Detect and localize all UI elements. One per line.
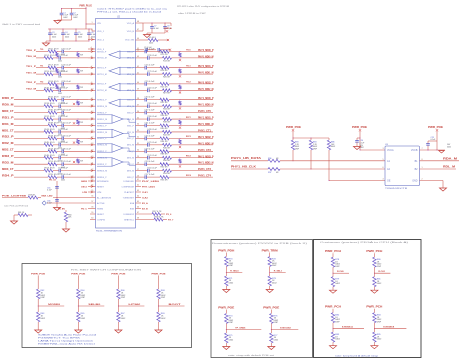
svg-text:GbE 1 in PHY unused tied: GbE 1 in PHY unused tied xyxy=(2,23,40,26)
svg-text:0402: 0402 xyxy=(377,283,382,285)
wire xyxy=(374,267,390,277)
svg-text:PWR_PLUG: PWR_PLUG xyxy=(80,4,93,7)
wire xyxy=(53,196,96,199)
pin number xyxy=(91,66,92,68)
svg-text:C26 0.1uF: C26 0.1uF xyxy=(58,71,69,73)
svg-text:26: 26 xyxy=(137,175,139,177)
pin number xyxy=(383,179,384,181)
wire xyxy=(57,112,62,114)
pin name xyxy=(127,68,134,70)
capacitor C40 xyxy=(61,123,88,131)
net label TP_GND6 xyxy=(235,327,246,329)
svg-text:C46 0.1uF: C46 0.1uF xyxy=(58,142,69,144)
power flag PWR_POE col0 xyxy=(31,274,46,289)
net label PHY1_CT0 xyxy=(198,111,212,113)
pin stub xyxy=(136,125,143,127)
svg-text:R36 0R: R36 0R xyxy=(161,115,169,117)
wire xyxy=(169,99,213,101)
net label RD2_M xyxy=(2,143,14,145)
svg-text:21: 21 xyxy=(91,162,93,164)
wire xyxy=(169,150,213,152)
svg-text:TXC0: TXC0 xyxy=(186,49,191,51)
svg-text:PWR_POE: PWR_POE xyxy=(263,308,280,310)
svg-text:C21 0.1uF: C21 0.1uF xyxy=(145,49,156,51)
pin name EXB xyxy=(130,208,135,210)
svg-text:AL_LARGECM: AL_LARGECM xyxy=(97,196,111,199)
wire xyxy=(169,176,213,178)
pin stub xyxy=(136,112,143,114)
pin name CONFIG xyxy=(97,219,105,221)
wire xyxy=(169,67,213,69)
wire xyxy=(271,324,298,334)
wire xyxy=(269,286,271,290)
pin number xyxy=(91,190,93,192)
svg-text:PHY1_MDI1_M: PHY1_MDI1_M xyxy=(198,124,214,126)
net label PHY0_MDI2_P xyxy=(198,82,214,84)
pin stub VDD_3 xyxy=(88,47,96,50)
svg-text:DNP: DNP xyxy=(121,297,126,299)
pin arrow xyxy=(91,99,93,101)
svg-text:PHY1_HB_CLK: PHY1_HB_CLK xyxy=(231,166,257,168)
pin name INTERFACE xyxy=(97,180,109,183)
resistor R38 xyxy=(163,118,172,124)
svg-text:C32 0.1uF: C32 0.1uF xyxy=(61,97,72,99)
svg-text:RXC3: RXC3 xyxy=(186,156,191,158)
pin number xyxy=(91,124,93,126)
pin name xyxy=(127,106,134,108)
svg-text:R19 49.9: R19 49.9 xyxy=(45,71,56,73)
resistor R41 xyxy=(44,129,56,134)
svg-text:C23 0.1uF: C23 0.1uF xyxy=(147,55,158,57)
power flag PWR_POE col1 xyxy=(71,274,86,289)
ground xyxy=(353,147,360,150)
wire xyxy=(333,323,364,333)
pin numbers right top xyxy=(137,21,139,31)
svg-text:19: 19 xyxy=(91,150,93,152)
wire xyxy=(53,105,59,107)
ground xyxy=(329,346,336,349)
pin name DONE/LED xyxy=(123,181,134,183)
svg-text:DNP: DNP xyxy=(41,297,46,299)
net label TD2_P xyxy=(26,82,37,84)
svg-text:PWR_PCH: PWR_PCH xyxy=(366,307,382,309)
ground xyxy=(54,20,61,24)
svg-text:note: keep bank A default stra: note: keep bank A default strap xyxy=(335,355,378,358)
resistor R85 xyxy=(373,332,382,342)
svg-text:RD3_P: RD3_P xyxy=(2,156,14,158)
svg-text:C24 0.1uF: C24 0.1uF xyxy=(61,65,72,67)
pin number xyxy=(137,162,139,164)
svg-text:0402: 0402 xyxy=(161,318,166,320)
svg-text:TD2_M: TD2_M xyxy=(26,89,36,91)
op-amp buffer ch1 xyxy=(109,67,136,75)
pin name TURBOSET xyxy=(123,197,135,199)
wire xyxy=(14,118,44,120)
svg-text:R.CH1: R.CH1 xyxy=(378,271,385,273)
pin name xyxy=(97,158,107,160)
net label R_SEL1 xyxy=(274,270,283,272)
svg-text:GPAY/SCL: GPAY/SCL xyxy=(124,218,135,221)
wire xyxy=(172,73,214,75)
svg-text:HSSM: HSSM xyxy=(97,208,103,210)
net label RD3_M xyxy=(2,163,14,165)
svg-text:0402: 0402 xyxy=(360,147,364,149)
svg-text:DNP: DNP xyxy=(295,149,300,151)
capacitor C56 xyxy=(47,200,59,205)
resistor R54 xyxy=(163,169,172,175)
wire xyxy=(158,299,184,312)
pin number xyxy=(91,89,93,91)
svg-text:R10 49.9: R10 49.9 xyxy=(49,49,60,51)
svg-text:R43 49.9: R43 49.9 xyxy=(49,135,60,137)
resistor R70 xyxy=(225,257,234,268)
svg-text:TURBOSET: TURBOSET xyxy=(123,197,135,199)
resistor R12 xyxy=(44,55,56,60)
svg-text:C39 0.1uF: C39 0.1uF xyxy=(147,116,158,118)
note termination xyxy=(96,230,123,233)
svg-text:MDI0_CT: MDI0_CT xyxy=(2,111,14,113)
svg-text:LPSK: LPSK xyxy=(128,304,141,306)
svg-text:MX4_P: MX4_P xyxy=(127,177,134,179)
ground xyxy=(439,150,445,153)
svg-text:C40 0.1uF: C40 0.1uF xyxy=(61,123,72,125)
svg-text:RD4_P: RD4_P xyxy=(2,174,14,177)
capacitor C36 xyxy=(61,110,88,118)
svg-text:TXC2: TXC2 xyxy=(186,82,191,84)
svg-text:14: 14 xyxy=(91,117,93,119)
capacitor C7 xyxy=(150,23,159,33)
svg-text:C35 0.1uF: C35 0.1uF xyxy=(147,103,158,105)
svg-text:VIN: VIN xyxy=(97,23,101,25)
net label PHY1_HB_CLK xyxy=(231,166,257,168)
resistor R74 xyxy=(225,314,234,325)
resistor R59 xyxy=(28,195,38,199)
wire xyxy=(14,125,48,127)
pin number xyxy=(137,143,139,145)
resistor shunt right lower xyxy=(179,157,181,167)
svg-text:MDI3_CT: MDI3_CT xyxy=(2,169,14,171)
resistor R81 xyxy=(373,277,382,287)
svg-text:R51 49.9: R51 49.9 xyxy=(49,161,60,163)
wire xyxy=(36,57,44,59)
pin number xyxy=(91,185,93,187)
ground xyxy=(62,229,69,232)
pin name AL_LARGECM xyxy=(97,196,111,199)
pin name xyxy=(127,158,134,160)
svg-text:0402: 0402 xyxy=(274,339,279,341)
svg-text:75R: 75R xyxy=(80,103,84,105)
wire xyxy=(360,149,385,152)
box notes xyxy=(38,333,98,345)
net label TD1_M xyxy=(26,72,36,74)
pin name EXA xyxy=(130,202,135,205)
svg-text:RDL_M: RDL_M xyxy=(443,167,455,169)
resistor R75 xyxy=(225,333,234,343)
capacitor C26 xyxy=(58,71,88,79)
capacitor C49 xyxy=(142,148,160,153)
wire xyxy=(225,286,227,290)
svg-text:R11 0R: R11 0R xyxy=(161,54,169,56)
power flag PWR_PCH xyxy=(325,307,341,313)
svg-text:SRRD2_P: SRRD2_P xyxy=(97,138,107,140)
svg-text:R55 49.9: R55 49.9 xyxy=(49,174,60,176)
svg-text:R20 0R: R20 0R xyxy=(163,77,171,79)
resistor shunt left lower xyxy=(76,157,83,164)
pin name xyxy=(97,132,107,134)
pin number xyxy=(137,104,139,106)
IC U2 body xyxy=(96,16,136,228)
svg-text:5: 5 xyxy=(383,159,384,161)
resistor shunt left ch2 xyxy=(77,84,84,91)
svg-text:GND0: GND0 xyxy=(81,181,88,183)
svg-text:0402: 0402 xyxy=(229,282,234,284)
svg-text:R31 49.9: R31 49.9 xyxy=(49,97,60,99)
pin name xyxy=(97,151,107,153)
wire xyxy=(14,144,44,146)
pin arrow xyxy=(91,150,93,152)
capacitor C42 xyxy=(58,129,88,137)
pin stub xyxy=(90,213,96,215)
svg-text:PWR_PDH: PWR_PDH xyxy=(218,251,234,253)
pin arrow xyxy=(91,144,93,146)
ground xyxy=(268,347,275,350)
resistor R34 xyxy=(163,105,172,111)
capacitor C32 xyxy=(61,97,88,105)
net label LPM xyxy=(82,191,95,194)
pin name xyxy=(127,119,134,121)
pin number xyxy=(137,82,139,84)
pin number xyxy=(137,111,139,113)
svg-text:LPM: LPM xyxy=(97,192,102,194)
svg-text:R47 49.9: R47 49.9 xyxy=(49,148,60,150)
pin stub xyxy=(136,73,143,75)
svg-text:0402: 0402 xyxy=(78,36,82,38)
pin stub xyxy=(136,176,143,178)
wire xyxy=(14,176,48,178)
svg-text:34: 34 xyxy=(137,124,139,126)
capacitor C8 xyxy=(163,23,172,33)
svg-text:75R: 75R xyxy=(80,122,84,124)
wire xyxy=(14,163,48,165)
resistor R5 xyxy=(136,37,170,44)
net label RD0_M xyxy=(2,104,14,106)
svg-text:RD2_P: RD2_P xyxy=(2,137,14,139)
pin name GPAY/SCL xyxy=(124,218,135,221)
wire xyxy=(36,89,44,91)
svg-text:C31 0.1uF: C31 0.1uF xyxy=(147,87,158,89)
capacitor C30 xyxy=(58,87,88,95)
svg-text:PHY_LED0: PHY_LED0 xyxy=(142,181,160,183)
pin number xyxy=(91,169,93,171)
resistor R49 xyxy=(44,155,56,160)
pin stub xyxy=(136,137,143,139)
svg-text:note1: RTL8367 pad 5 (GbE) to: note1: RTL8367 pad 5 (GbE) to tx_out via xyxy=(97,8,169,11)
note GbE xyxy=(2,23,40,26)
resistor R61 xyxy=(14,212,32,216)
pin number xyxy=(91,150,93,152)
svg-text:PHY0_MDI0_M: PHY0_MDI0_M xyxy=(198,56,214,58)
svg-text:R_SEL0: R_SEL0 xyxy=(230,270,239,272)
pin name xyxy=(97,58,107,60)
svg-text:RD1_P: RD1_P xyxy=(2,117,14,119)
net label RD2_P xyxy=(2,137,14,139)
pin number xyxy=(422,179,423,181)
resistor R46 xyxy=(163,143,172,149)
svg-text:C43 0.1uF: C43 0.1uF xyxy=(147,129,158,131)
svg-text:MDI2_CT: MDI2_CT xyxy=(2,150,14,152)
DNP X mark xyxy=(73,103,75,105)
wire xyxy=(172,157,214,159)
pin arrow xyxy=(91,112,93,114)
svg-text:75R: 75R xyxy=(80,54,84,56)
svg-text:C54 0.1uF: C54 0.1uF xyxy=(58,168,69,170)
ground xyxy=(143,33,150,38)
svg-text:RTL 8367 SWITCH CONFIGURATION: RTL 8367 SWITCH CONFIGURATION xyxy=(71,268,142,271)
pin number xyxy=(137,89,139,91)
pin name ACTIVE xyxy=(97,202,105,205)
pin stub xyxy=(136,144,143,146)
capacitor C46 xyxy=(58,142,88,150)
svg-text:VDD_GN: VDD_GN xyxy=(125,39,135,41)
resistor R47 xyxy=(48,148,60,153)
ground xyxy=(75,330,82,333)
svg-text:R26 49.9: R26 49.9 xyxy=(45,87,56,89)
pin arrow xyxy=(91,89,93,91)
svg-text:MX2_P: MX2_P xyxy=(127,151,134,153)
wire xyxy=(169,51,213,53)
wire xyxy=(88,89,96,91)
wire xyxy=(14,137,48,139)
pin arrow xyxy=(91,50,93,52)
net label TD0_P xyxy=(26,50,37,52)
capacitor C55 xyxy=(47,187,59,192)
svg-text:SRRD3_M: SRRD3_M xyxy=(97,158,107,160)
svg-text:TXC1: TXC1 xyxy=(186,66,191,68)
svg-text:R58 4.7K: R58 4.7K xyxy=(155,217,165,219)
op-amp buffer ch5 xyxy=(97,129,136,137)
svg-text:INTERFACE: INTERFACE xyxy=(97,180,109,183)
svg-text:TP_GND6: TP_GND6 xyxy=(235,327,246,329)
pin stub xyxy=(136,118,143,120)
svg-text:DNP: DNP xyxy=(274,322,279,324)
svg-text:C37 0.1uF: C37 0.1uF xyxy=(145,110,156,112)
svg-text:15: 15 xyxy=(91,124,93,126)
net label PHY1_CT1 xyxy=(198,130,212,132)
svg-text:TXS0102DCTR: TXS0102DCTR xyxy=(385,188,408,190)
wire xyxy=(226,267,242,277)
svg-text:PHY1_MDI2_M: PHY1_MDI2_M xyxy=(198,143,214,145)
svg-text:SRTD2_P: SRTD2_P xyxy=(97,84,107,86)
pin name xyxy=(97,100,107,102)
net label CLK2 xyxy=(142,197,148,199)
wire xyxy=(57,125,62,127)
wire xyxy=(53,89,59,91)
net label TXC2 xyxy=(186,82,191,84)
wire xyxy=(147,32,165,34)
pin stub xyxy=(136,57,143,59)
svg-text:C47 0.1uF: C47 0.1uF xyxy=(147,142,158,144)
pin name xyxy=(97,119,107,121)
resistor R45 xyxy=(44,142,56,147)
svg-text:R.CH0: R.CH0 xyxy=(337,271,344,273)
pin name xyxy=(127,145,134,147)
svg-text:E.MO.DE2: E.MO.DE2 xyxy=(280,327,291,329)
power flag PWR_PCH xyxy=(366,307,382,313)
wire xyxy=(373,342,375,346)
pin arrow xyxy=(91,131,93,133)
svg-text:R17 49.9: R17 49.9 xyxy=(49,65,60,67)
pin number xyxy=(91,212,93,214)
svg-text:RD2_M: RD2_M xyxy=(2,143,14,145)
svg-text:RESET: RESET xyxy=(97,214,105,216)
svg-text:VDD_2: VDD_2 xyxy=(97,39,105,41)
net label POE_LIGHTER xyxy=(2,196,27,198)
resistor R43 xyxy=(48,135,60,140)
svg-text:PHY0_MDI1_M: PHY0_MDI1_M xyxy=(198,73,214,75)
svg-text:C27 0.1uF: C27 0.1uF xyxy=(147,71,158,73)
svg-text:SRRD3_M: SRRD3_M xyxy=(97,170,107,172)
op-amp buffer ch3 xyxy=(109,99,136,107)
net label RXC4 xyxy=(186,174,191,177)
pin number xyxy=(137,130,139,132)
DNP X mark xyxy=(73,161,75,163)
pin stub xyxy=(136,163,143,165)
net label TD0_M xyxy=(26,56,36,58)
net label RD0_P xyxy=(2,98,14,100)
ground xyxy=(42,41,49,46)
pin number xyxy=(91,218,93,220)
svg-text:PWR_POE: PWR_POE xyxy=(71,274,86,276)
svg-text:MDI1_CT: MDI1_CT xyxy=(2,130,14,132)
wire xyxy=(280,160,385,162)
wire xyxy=(36,51,48,53)
wire xyxy=(169,112,213,114)
svg-text:C49 0.1uF: C49 0.1uF xyxy=(145,148,156,150)
net label PHY1_MDI1_M xyxy=(198,124,214,126)
wire xyxy=(88,176,96,178)
wire xyxy=(333,267,349,277)
pin name xyxy=(97,74,107,76)
svg-text:C51 0.1uF: C51 0.1uF xyxy=(147,155,158,157)
pin number xyxy=(91,156,93,158)
resistor R82 xyxy=(331,313,340,324)
pin number xyxy=(137,124,139,126)
svg-text:RXC1: RXC1 xyxy=(186,117,191,119)
capacitor C50 xyxy=(58,155,88,163)
pin number xyxy=(137,212,139,214)
svg-text:R27 0R: R27 0R xyxy=(163,93,171,95)
net label PHY1_MDI2_M xyxy=(198,143,214,145)
wire xyxy=(36,83,48,85)
wire xyxy=(88,112,96,114)
pin stub xyxy=(136,105,143,107)
pin name xyxy=(97,84,107,86)
pin name PLAY/EXT xyxy=(124,191,135,194)
svg-text:R53 49.9: R53 49.9 xyxy=(45,168,56,170)
pin name GND xyxy=(412,179,418,182)
note blue xyxy=(97,8,169,14)
pin name COMPMODE xyxy=(122,186,135,188)
svg-text:C45 0.1uF: C45 0.1uF xyxy=(145,135,156,137)
svg-text:C41 0.1uF: C41 0.1uF xyxy=(145,123,156,125)
svg-text:0402: 0402 xyxy=(272,282,277,284)
op-amp buffer ch0 xyxy=(109,51,136,59)
svg-text:PHY0_MDI1_P: PHY0_MDI1_P xyxy=(198,66,214,68)
net label PHY1_MDI2_P xyxy=(198,137,214,139)
capacitor C45 xyxy=(142,135,160,140)
svg-text:13: 13 xyxy=(91,111,93,113)
resistor R79 xyxy=(331,277,340,287)
